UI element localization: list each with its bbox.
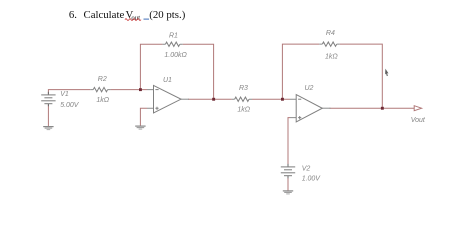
op-amp U2 input pin leads (290, 99, 296, 117)
resistor R2 (93, 87, 107, 91)
svg-text:5.00V: 5.00V (60, 102, 80, 109)
wire U2 output to Vout arrow (330, 107, 415, 109)
svg-text:1.00kΩ: 1.00kΩ (164, 52, 187, 59)
svg-text:U2: U2 (305, 85, 314, 92)
svg-text:Vout: Vout (411, 117, 426, 124)
svg-text:1kΩ: 1kΩ (325, 53, 338, 60)
wire V1 plus to R2 left (48, 90, 90, 95)
wire U1 noninverting input to ground (140, 108, 147, 125)
resistor R1 pin leads (162, 43, 182, 45)
svg-text:V1: V1 (60, 91, 69, 98)
wire R4 right to node D (feedback) (340, 44, 383, 108)
wire R3 right to U2 inverting input (252, 98, 290, 100)
junction node A (R1 feedback / U1 inverting input) (139, 88, 142, 91)
wire U1 output to R3 left (188, 98, 232, 100)
output arrow Vout (414, 106, 421, 111)
wire V2 minus to ground (287, 176, 289, 191)
op-amp U1 output pin lead (181, 98, 189, 100)
resistor R2 pin leads (90, 89, 110, 91)
wire node A to R1 left (feedback) (140, 44, 162, 89)
resistor R1 (165, 42, 179, 46)
battery V1 pin stubs (47, 92, 49, 106)
resistor R3 pin leads (232, 98, 252, 100)
svg-text:1kΩ: 1kΩ (96, 97, 109, 104)
svg-text:U1: U1 (163, 77, 172, 84)
svg-text:V2: V2 (302, 165, 311, 172)
junction node C (R3 / R4 / U2 inverting input) (281, 98, 284, 101)
svg-text:1kΩ: 1kΩ (237, 106, 250, 113)
svg-text:6.: 6. (69, 9, 77, 21)
ground under V1 (43, 127, 53, 130)
op-amp U2 output pin lead (322, 107, 331, 109)
title text "6. Calculate Vout (20 pts.)" (69, 9, 186, 22)
op-amp U2 (296, 95, 322, 122)
battery V1 (41, 95, 55, 104)
resistor R3 (235, 97, 249, 101)
red spellcheck squiggle under Vout (125, 19, 141, 21)
junction node D (U2 output / R4 / Vout) (381, 107, 384, 110)
wire U2 noninverting input to V2 plus (288, 118, 290, 167)
battery V2 (281, 167, 295, 176)
ground under U1 noninverting input (135, 126, 145, 129)
wire R2 right to U1 inverting input (111, 89, 147, 91)
resistor R4 pin leads (319, 43, 339, 45)
ground under V2 (283, 191, 293, 194)
wire R1 right to node B (feedback) (183, 44, 214, 99)
op-amp U1 (154, 85, 182, 113)
resistor R4 (322, 42, 336, 46)
svg-text:(20 pts.): (20 pts.) (149, 9, 185, 21)
wire V1 minus to ground (47, 104, 49, 126)
svg-text:R1: R1 (169, 32, 178, 39)
wire node C to R4 left (feedback) (282, 44, 319, 99)
svg-text:Calculate: Calculate (84, 9, 125, 21)
svg-text:1.00V: 1.00V (302, 176, 322, 183)
svg-text:R2: R2 (98, 76, 107, 83)
battery V2 pin stubs (287, 164, 289, 179)
blue grammar underline mark after Vout (144, 18, 150, 20)
svg-text:R3: R3 (239, 85, 248, 92)
op-amp U1 input pin leads (147, 90, 154, 109)
junction node B (U1 output / R1 / R3) (212, 98, 215, 101)
mouse cursor mark (385, 69, 388, 77)
svg-text:R4: R4 (326, 30, 335, 37)
